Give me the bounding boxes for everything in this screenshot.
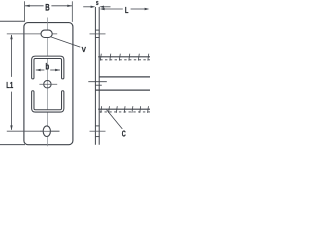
- svg-text:L: L: [125, 5, 129, 16]
- svg-text:C: C: [122, 129, 126, 138]
- arm stub line crossing strip: [88, 81, 107, 83]
- leader line V: [51, 37, 80, 47]
- hole center line top (L1 extension): [7, 33, 57, 35]
- plate outline (front view): [24, 23, 73, 145]
- channel lower (staple opening up): [33, 92, 63, 111]
- bottom oval hole: [43, 126, 50, 137]
- rail lower tick marks: [101, 106, 149, 113]
- stray extension line top-left: [0, 20, 24, 22]
- dimension B line: [25, 5, 44, 7]
- dimension s arrows: [83, 6, 91, 8]
- top slot: [41, 30, 52, 37]
- oval center line crossing strip: [90, 130, 106, 132]
- rail lower solid line: [98, 108, 150, 110]
- svg-text:B: B: [45, 2, 50, 13]
- arm top line: [99, 76, 150, 78]
- oval rungs on strip: [95, 125, 100, 127]
- dimension B extension lines: [24, 1, 26, 22]
- rail upper solid line: [98, 56, 150, 58]
- arm bottom line: [95, 89, 150, 91]
- hole circle middle: [44, 81, 51, 88]
- dimension L1 line: [11, 35, 13, 77]
- svg-text:V: V: [82, 47, 87, 55]
- small stub line on strip: [95, 84, 102, 86]
- svg-text:s: s: [96, 0, 99, 7]
- svg-text:L1: L1: [6, 81, 13, 90]
- side view plate strip left edge: [94, 7, 96, 145]
- rail upper tick marks: [100, 54, 148, 61]
- slot center line crossing strip: [90, 33, 106, 35]
- slot rungs on strip: [95, 29, 100, 31]
- stray extension line bottom-left: [0, 144, 25, 146]
- side view plate strip right edge: [98, 7, 100, 145]
- circle center line: [39, 83, 57, 85]
- vertical center line: [47, 18, 49, 147]
- rail lower dashed line: [100, 111, 150, 113]
- leader line C: [107, 110, 123, 129]
- dimension b arrows: [36, 69, 45, 71]
- svg-text:b: b: [45, 62, 49, 73]
- hole center line bottom (L1 extension): [7, 130, 60, 132]
- rail upper dashed line: [100, 59, 150, 61]
- channel upper (staple opening down): [33, 57, 63, 77]
- dimension L line: [104, 8, 123, 10]
